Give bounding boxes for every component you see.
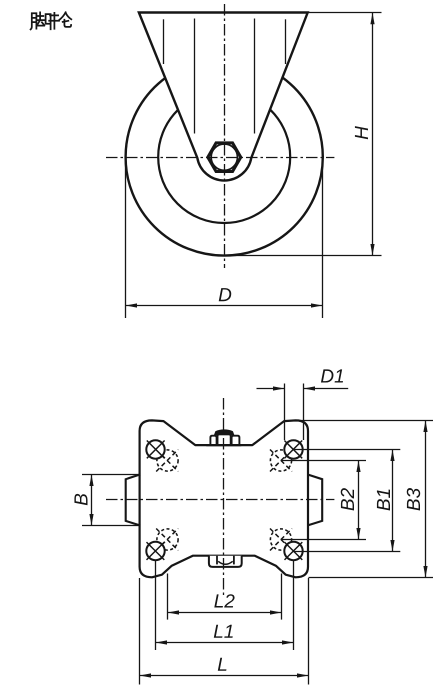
hole BL cross [147,542,165,560]
dimension H label [355,126,368,139]
dimension D1 extension line left [284,384,286,441]
dimension L2 arrow right [270,610,282,614]
dimension D1 arrow left [273,386,285,390]
hole TL cross [147,441,165,459]
dimension B2 extension line bottom [281,539,366,541]
fork bend line left outer [163,19,165,64]
dimension L1 line [156,642,294,644]
right wheel tab [307,474,322,525]
fork bend line right outer [285,19,287,64]
dimension D arrow left [126,303,138,307]
dimension B2 extension line top [281,460,366,462]
dimension B arrow top [89,475,93,487]
dimension B1 extension line top [294,449,401,451]
hole TL dashed circle [157,450,178,471]
dimension L label [218,658,227,671]
dimension L2 extension line left [167,574,169,620]
dimension B3 line [425,421,427,578]
dimension B2 arrow bottom [356,528,360,540]
axle hex nut [208,143,241,172]
hole BL dashed cross [156,529,178,551]
dimension B line [91,475,93,526]
dimension L1 arrow right [282,640,294,644]
fork bend line left inner [194,19,196,134]
dimension L2 label [214,594,234,607]
bottom view horizontal centerline [106,499,334,501]
dimension B3 extension line top [296,420,433,422]
dimension B extension line bottom [82,525,140,527]
dimension D extension line left [125,158,127,318]
hole TL bolt circle [146,440,164,458]
dimension B1 arrow bottom [390,540,394,552]
dimension L1 arrow left [156,640,168,644]
hole BR bolt circle [284,542,302,560]
bottom view vertical centerline [223,398,225,597]
fork bracket (white body over wheel) [139,13,308,181]
hole TR dashed circle [270,450,291,471]
dimension B label [74,494,87,505]
dimension B2 line [358,461,360,540]
dimension L1 extension line right [293,561,295,650]
top view vertical centerline [224,4,226,268]
dimension B3 extension line bottom [309,577,434,579]
dimension B1 arrow top [390,450,394,462]
wheel hub circle [158,91,290,223]
left wheel tab [126,474,141,525]
dimension L line [140,675,309,677]
bottom hex nut (plan) [209,556,242,567]
dimension L2 line [168,612,282,614]
dimension B2 label [341,488,354,510]
dimension L arrow right [297,673,309,677]
dimension L2 extension line right [281,574,283,620]
dimension B3 arrow bottom [423,566,427,578]
dimension B2 arrow top [356,461,360,473]
dimension B3 arrow top [423,421,427,433]
dimension B3 label [407,488,420,510]
hole BL dashed circle [157,529,178,550]
dimension H line [372,13,374,256]
fork bend line right inner [254,19,256,134]
dimension D line [126,305,323,307]
hole BR dashed cross [270,529,292,551]
dimension D label [219,288,232,301]
wheel outer circle D [126,58,323,255]
dimension D1 extension line right [303,384,305,441]
hole BR dashed circle [270,529,291,550]
hole BR cross [285,542,303,560]
dimension B1 label [377,489,390,510]
dimension L extension line left [139,578,141,685]
dimension D extension line right [322,158,324,318]
dimension D1 arrow right [304,386,316,390]
dimension D1 leader right [304,388,349,390]
dimension L arrow left [140,673,152,677]
hole BL bolt circle [146,542,164,560]
dimension H extension line bottom [225,255,382,257]
hole TL dashed cross [156,450,178,472]
dimension H extension line top [308,12,381,14]
hole TR dashed cross [270,450,292,472]
dimension L1 extension line left [155,561,157,650]
dimension L2 arrow left [168,610,180,614]
top view horizontal centerline [106,157,334,159]
dimension B1 line [392,450,394,552]
dimension B arrow bottom [89,514,93,526]
top hex nut (plan) [206,430,241,446]
dimension L1 label [214,625,233,638]
dimension L extension line right [308,578,310,685]
title text 脚轮 (caster) drawn as strokes [31,12,72,29]
dimension D arrow right [311,303,323,307]
dimension D1 leader left [257,388,285,390]
hole TR cross [284,441,302,459]
mounting plate outline [140,420,308,577]
hole TR bolt circle [284,440,302,458]
dimension B1 extension line bottom [294,551,401,553]
dimension B extension line top [82,474,140,476]
axle washer circle [211,144,237,170]
dimension H arrow bottom [370,244,374,256]
dimension H arrow top [370,13,374,25]
dimension D1 label [321,369,343,382]
